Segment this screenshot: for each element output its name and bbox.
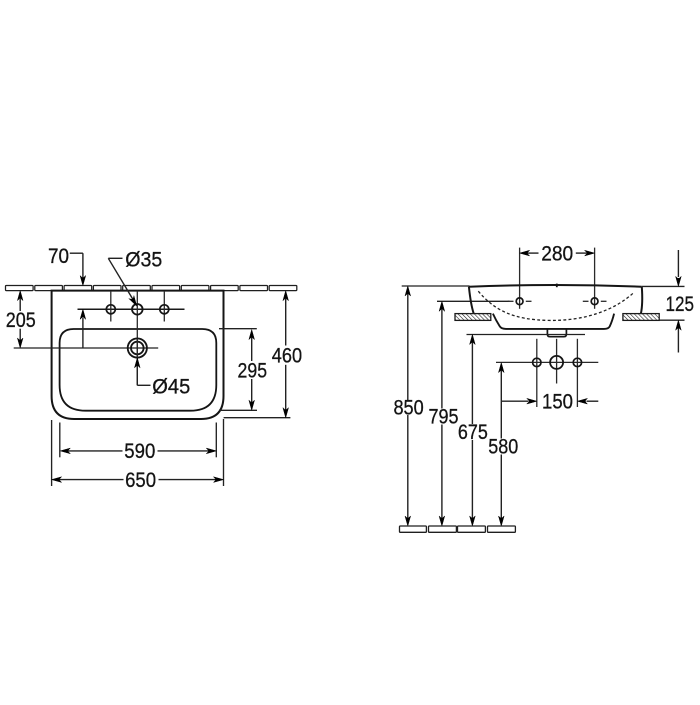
basin outer outline (front) xyxy=(52,291,224,419)
svg-text:650: 650 xyxy=(125,468,156,492)
svg-text:580: 580 xyxy=(488,435,518,459)
fixing hole left xyxy=(533,358,541,366)
lower bowl under console xyxy=(493,314,614,329)
dim 280 xyxy=(520,250,530,256)
faucet holes centerline xyxy=(78,308,185,310)
svg-text:795: 795 xyxy=(429,405,459,429)
dim 590 xyxy=(60,448,70,454)
dim 850 ref line xyxy=(402,285,470,287)
dim 125 xyxy=(677,250,679,277)
drain centerlines xyxy=(536,339,538,407)
dim 795 xyxy=(439,301,445,311)
dim 590 ext lines xyxy=(59,423,61,458)
floor hatch bars xyxy=(400,526,516,532)
dim 675 ref line xyxy=(467,334,586,336)
drain ref line (205 bottom) xyxy=(14,347,159,349)
dim 580 xyxy=(499,363,505,373)
dim 460 ref line xyxy=(224,417,291,419)
inner bowl outline xyxy=(60,329,217,411)
fixing hole right xyxy=(573,358,581,366)
svg-text:70: 70 xyxy=(48,244,69,268)
drain circle center xyxy=(550,356,563,369)
dim Ø45 leader xyxy=(135,358,141,368)
dim 295 ref lines xyxy=(219,328,257,330)
left edge xyxy=(469,287,474,314)
svg-text:Ø35: Ø35 xyxy=(125,247,162,271)
dim 295 xyxy=(249,330,255,340)
dim 650 xyxy=(52,477,62,483)
svg-text:295: 295 xyxy=(238,359,268,383)
dim Ø35 leader xyxy=(108,257,122,259)
console hatched bar left xyxy=(455,314,491,321)
dim 125 ref lines xyxy=(642,285,685,287)
mounting hole left (side) xyxy=(508,300,514,302)
center tick xyxy=(556,284,558,288)
faucet hole left xyxy=(106,305,115,314)
svg-text:460: 460 xyxy=(272,344,302,368)
hole ext verticals xyxy=(519,248,521,309)
dim 850 xyxy=(405,286,411,296)
console hatched bar right xyxy=(623,314,659,321)
svg-text:590: 590 xyxy=(124,439,155,463)
right edge xyxy=(641,287,642,314)
svg-text:205: 205 xyxy=(6,308,36,332)
drain hole xyxy=(128,338,147,357)
svg-text:150: 150 xyxy=(542,390,573,414)
faucet hole center xyxy=(132,304,143,315)
svg-text:675: 675 xyxy=(458,420,488,444)
svg-text:280: 280 xyxy=(541,242,573,266)
svg-text:850: 850 xyxy=(393,396,423,420)
side hole verticals xyxy=(110,291,112,322)
basin side profile: top edge xyxy=(469,285,642,287)
mounting hole right (side) xyxy=(583,300,589,302)
dim 650 ext lines xyxy=(51,420,53,486)
center vertical axis xyxy=(136,291,138,386)
dim 150 xyxy=(502,400,528,402)
dim 795 ref line xyxy=(437,300,510,302)
dim 675 xyxy=(470,335,476,345)
circle row centerline xyxy=(496,361,598,363)
svg-text:Ø45: Ø45 xyxy=(152,374,190,398)
svg-text:125: 125 xyxy=(665,292,694,316)
dim 460 xyxy=(283,291,289,301)
dim 205 xyxy=(17,291,23,301)
faucet hole right xyxy=(160,305,169,314)
hidden bowl curve (dashed) xyxy=(478,291,634,320)
drain stub xyxy=(547,329,566,337)
wall hatch line xyxy=(6,286,297,291)
